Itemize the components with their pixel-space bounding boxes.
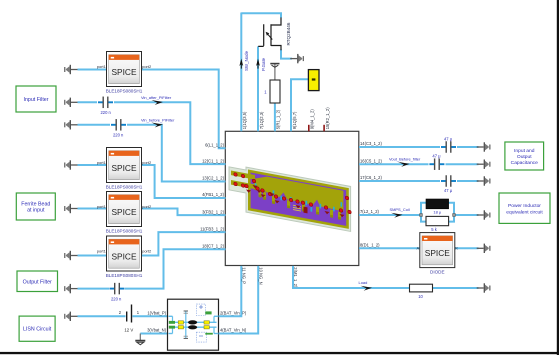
svg-text:SPICE: SPICE [112,68,138,77]
svg-text:RTQ2B446: RTQ2B446 [286,22,291,45]
svg-text:port1: port1 [97,204,107,209]
svg-text:port1: port1 [97,64,107,69]
svg-text:12 V: 12 V [124,327,133,332]
svg-text:18(C7_1_2): 18(C7_1_2) [202,243,224,248]
svg-text:Output: Output [517,154,532,160]
svg-text:11(FB3_1_2): 11(FB3_1_2) [200,226,224,231]
svg-text:at input: at input [27,208,45,214]
svg-text:9(M4_1_2): 9(M4_1_2) [310,109,315,130]
svg-text:10 NG_N: 10 NG_N [258,267,263,284]
svg-text:6(L1_1_2): 6(L1_1_2) [205,142,224,147]
svg-text:Vout_Before_filter: Vout_Before_filter [389,156,421,161]
svg-text:Load: Load [359,280,368,285]
svg-text:1(Vbat_P): 1(Vbat_P) [147,310,166,315]
svg-text:BLE18PS080SH1: BLE18PS080SH1 [106,273,143,278]
svg-text:5(R1_1_2): 5(R1_1_2) [276,109,281,129]
svg-text:220 n: 220 n [101,110,112,115]
svg-text:18 μ: 18 μ [433,209,442,214]
svg-text:4(BAT_Vin_N): 4(BAT_Vin_N) [220,328,247,333]
svg-text:12(C1_1_2): 12(C1_1_2) [202,158,224,163]
svg-text:A: A [417,245,420,250]
svg-text:47 μ: 47 μ [432,153,441,158]
svg-text:SPICE: SPICE [112,253,138,262]
svg-text:P.Gate: P.Gate [261,57,266,71]
svg-text:7(1Q(2,3): 7(1Q(2,3) [259,111,264,129]
svg-text:220 n: 220 n [111,297,122,302]
svg-text:1(1Q(3,5): 1(1Q(3,5) [242,111,247,129]
svg-text:13(C2_1_2): 13(C2_1_2) [202,176,224,181]
svg-text:port2: port2 [142,249,152,254]
svg-text:port1: port1 [97,249,107,254]
svg-text:47 μ: 47 μ [444,136,453,141]
svg-text:port2: port2 [142,204,152,209]
svg-text:5 k: 5 k [431,227,437,232]
svg-text:15(R2_1_2): 15(R2_1_2) [325,107,330,129]
svg-text:11 NG_P: 11 NG_P [242,267,247,284]
svg-text:SW_Node: SW_Node [244,50,249,71]
svg-text:16(C5_1_2): 16(C5_1_2) [360,158,382,163]
svg-text:7(L2_1_2): 7(L2_1_2) [360,209,379,214]
svg-text:Input Filter: Input Filter [23,97,48,103]
svg-text:BLE18PS080SH1: BLE18PS080SH1 [106,88,143,93]
svg-text:Input and: Input and [514,148,535,154]
svg-text:Ferrite Bead: Ferrite Bead [21,201,50,207]
svg-text:BLE18PS080SH1: BLE18PS080SH1 [106,228,143,233]
svg-text:K: K [455,245,458,250]
svg-text:47 μ: 47 μ [444,188,453,193]
svg-text:9(1Q(5,7): 9(1Q(5,7) [292,111,297,129]
svg-text:Vin_before_PiFilter: Vin_before_PiFilter [141,118,175,123]
svg-text:equivalent circuit: equivalent circuit [506,209,543,215]
svg-text:SPICE: SPICE [425,249,451,258]
svg-text:BLE18PS080SH1: BLE18PS080SH1 [106,184,143,189]
svg-text:3(FB2_1_2): 3(FB2_1_2) [202,209,224,214]
svg-text:220 n: 220 n [113,132,124,137]
svg-text:LISN Circuit: LISN Circuit [23,327,52,333]
svg-text:port1: port1 [97,160,107,165]
svg-text:17(C6_1_2): 17(C6_1_2) [360,175,382,180]
svg-text:SMPS_Coil: SMPS_Coil [390,207,410,212]
svg-text:SPICE: SPICE [112,164,138,173]
svg-text:14(C3_1_2): 14(C3_1_2) [360,141,382,146]
svg-text:DIODE: DIODE [430,269,445,274]
svg-text:Capacitance: Capacitance [511,160,538,166]
svg-text:Vin_after_PiFilter: Vin_after_PiFilter [141,95,172,100]
svg-text:10: 10 [418,294,423,299]
svg-text:3(Vbat_N): 3(Vbat_N) [147,328,166,333]
svg-text:Power Inductor: Power Inductor [508,203,541,209]
svg-text:8(D1_1_2): 8(D1_1_2) [360,243,380,248]
svg-text:Output Filter: Output Filter [23,279,52,285]
svg-text:2(BAT_Vin_P): 2(BAT_Vin_P) [220,310,247,315]
svg-text:4(FB1_1_2): 4(FB1_1_2) [202,192,224,197]
svg-text:SPICE: SPICE [112,208,138,217]
svg-text:port2: port2 [142,64,152,69]
svg-text:port2: port2 [142,160,152,165]
